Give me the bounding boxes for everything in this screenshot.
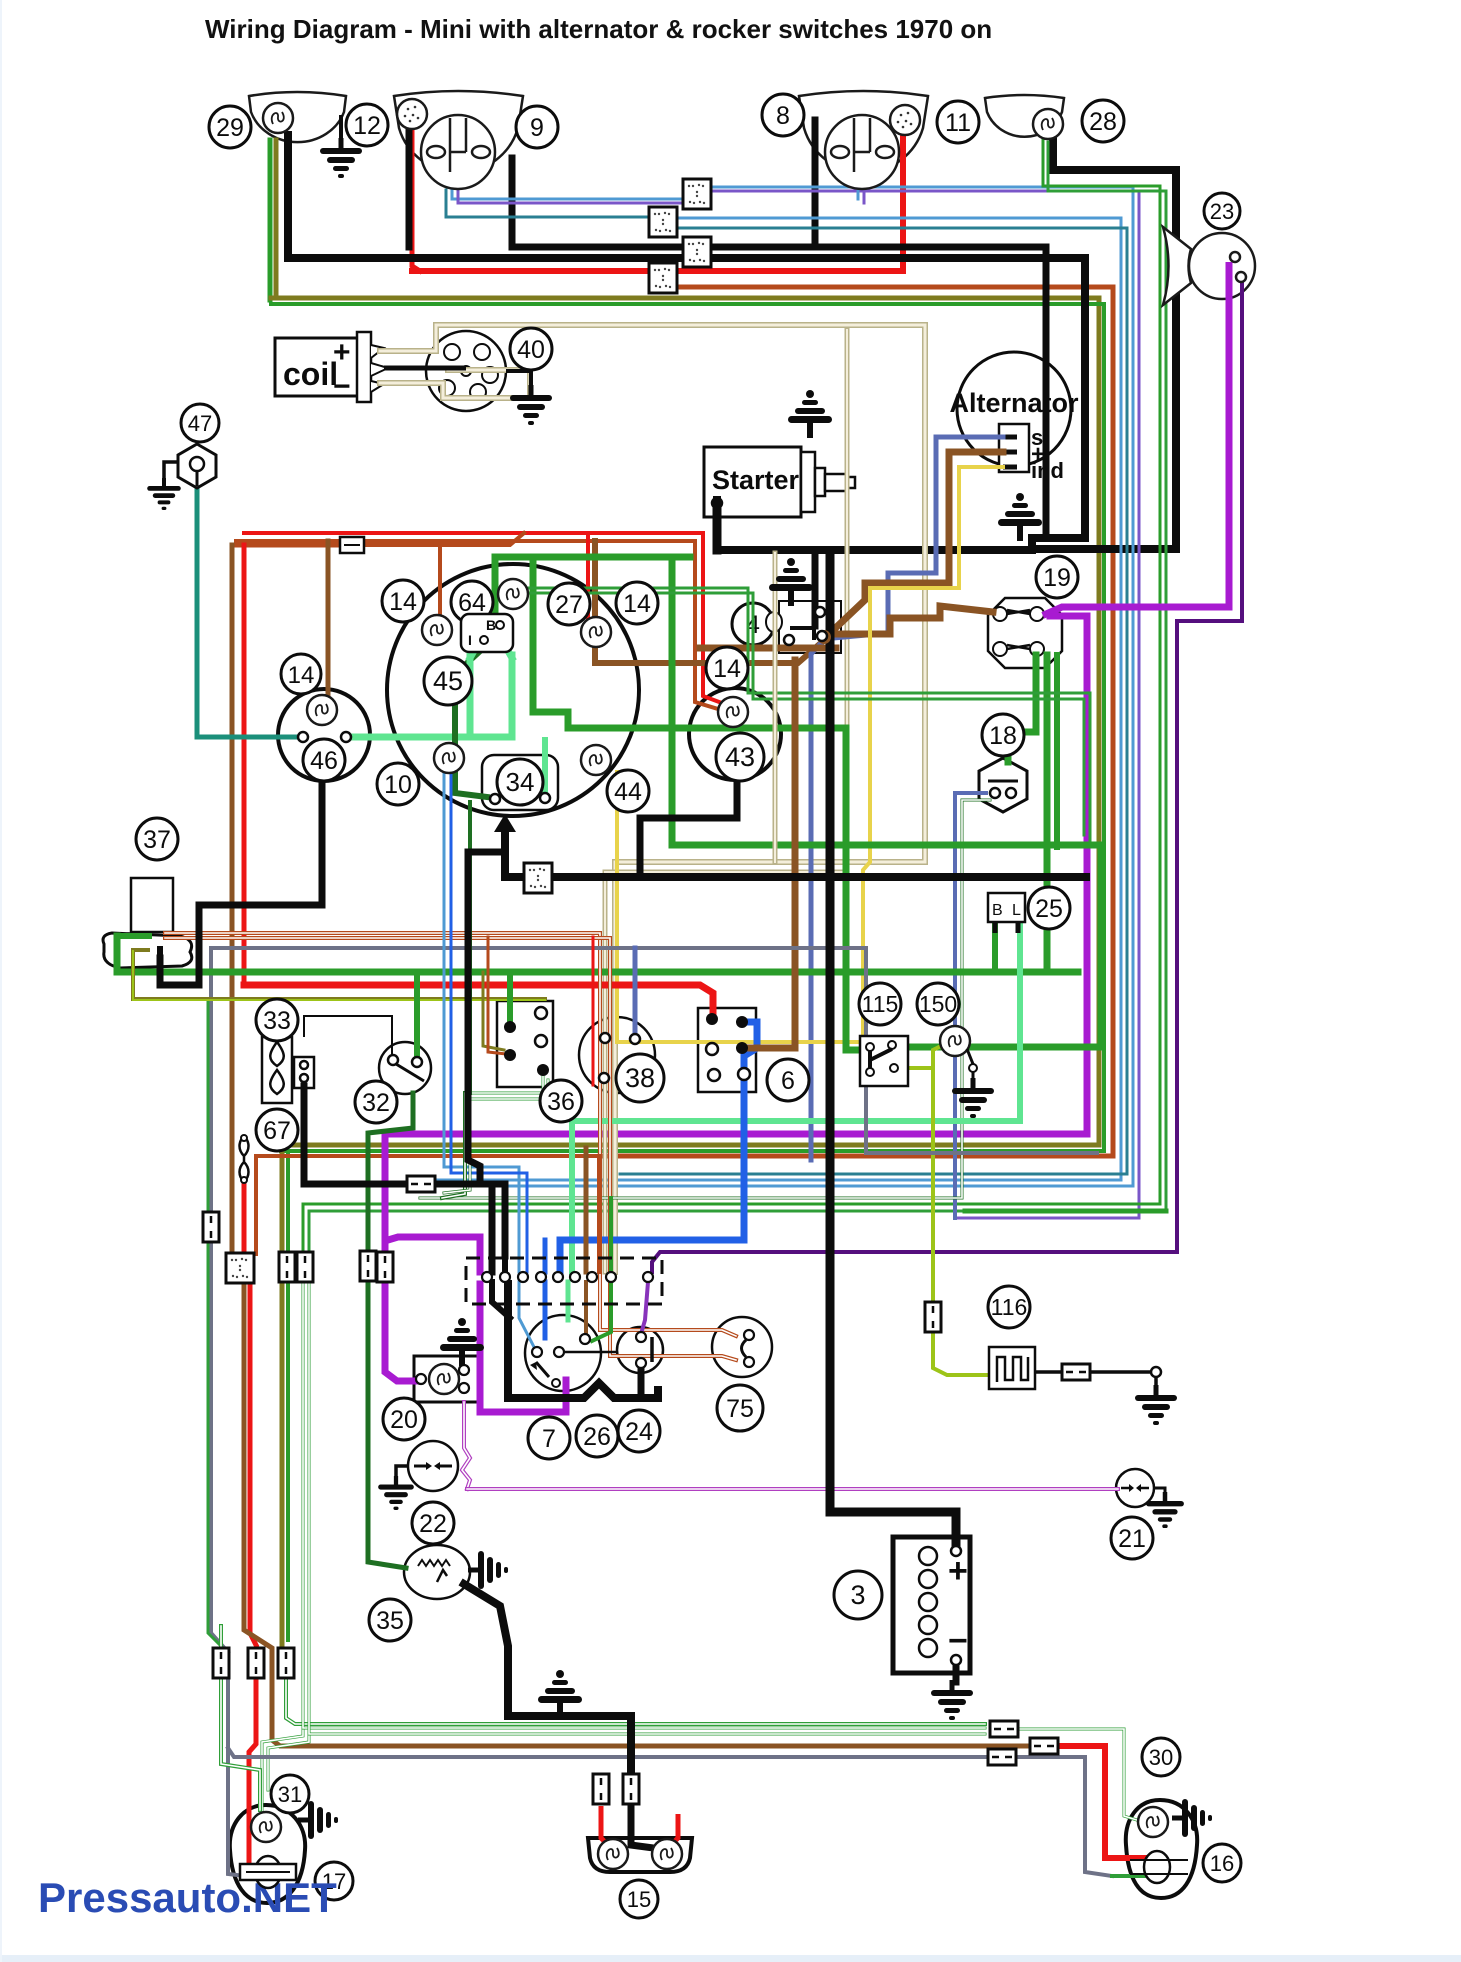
- wire black top band y258: [288, 135, 1085, 550]
- svg-text:33: 33: [263, 1007, 291, 1035]
- speedo inner box 34: [482, 755, 558, 810]
- svg-text:−: −: [333, 370, 351, 403]
- wire green drop into 32: [414, 972, 420, 1060]
- wire black fuse to ignition: [432, 1184, 505, 1256]
- label circle 8: [762, 94, 804, 136]
- label circle 150: [917, 983, 959, 1025]
- svg-text:30: 30: [1149, 1745, 1173, 1770]
- switch 36 terminals: [504, 1021, 516, 1033]
- lamp 28 shell: [985, 95, 1064, 137]
- svg-text:coil: coil: [283, 356, 338, 392]
- wire green-brown two-tone vertical olive half: [274, 140, 279, 298]
- wire gray rear after fuse: [1015, 1757, 1112, 1876]
- wire green below box: [592, 1282, 611, 1341]
- lamp 20 bulb and terminals: [416, 1374, 426, 1384]
- page edge strips: [0, 1955, 1461, 1962]
- svg-text:31: 31: [278, 1782, 302, 1807]
- wire green pair B below: [268, 1284, 309, 1790]
- svg-text:14: 14: [288, 662, 315, 689]
- svg-text:15: 15: [627, 1887, 651, 1912]
- label circle 14 right: [616, 582, 658, 624]
- label circle 26: [576, 1415, 618, 1457]
- terminals of 46: [298, 732, 351, 742]
- svg-text:23: 23: [1210, 199, 1234, 224]
- svg-text:Wiring Diagram - Mini with alt: Wiring Diagram - Mini with alternator & …: [205, 14, 992, 44]
- connectors top middle: [683, 179, 711, 209]
- switch 32: [379, 1042, 431, 1094]
- heater fan 33: [262, 1037, 314, 1103]
- wire red after fuse to lamp16: [1058, 1746, 1145, 1858]
- wire magenta band y1237: [388, 1237, 480, 1272]
- wire green from 18: [420, 800, 990, 1198]
- wire rust thin pair B: [165, 938, 736, 1360]
- svg-text:45: 45: [433, 666, 463, 696]
- bulb in 46: [307, 695, 337, 725]
- label circle 30: [1142, 1738, 1180, 1776]
- battery 3: [893, 1537, 970, 1673]
- wire black y877 band: [505, 830, 1086, 877]
- label circle 33: [256, 999, 298, 1041]
- svg-text:3: 3: [850, 1580, 865, 1610]
- label circle 10: [377, 763, 419, 805]
- label circle 37: [136, 818, 178, 860]
- wire magenta to lamp 20: [382, 1134, 389, 1253]
- number plate lamp 15 bulbs: [598, 1839, 628, 1869]
- wire black ignition M: [508, 1284, 658, 1398]
- black coil centre lead: [384, 366, 466, 371]
- wire black lamp8 earth down: [812, 120, 819, 247]
- wire rust band y541: [236, 541, 718, 709]
- wire lamp8 violet tap: [863, 190, 866, 203]
- svg-text:37: 37: [143, 826, 171, 854]
- label circle 17: [315, 1862, 353, 1900]
- contact 75: [712, 1317, 772, 1377]
- wire green thin pair from bulb B: [524, 593, 1084, 835]
- label circle 11: [937, 101, 979, 143]
- wiper motor 38: [579, 1017, 655, 1093]
- label circle 28: [1082, 100, 1124, 142]
- ground right of 30: [1172, 1799, 1212, 1837]
- label circle 45: [424, 657, 472, 705]
- gauge 43: [689, 688, 781, 780]
- alternator circle: [949, 352, 1079, 483]
- label circle 23: [1204, 193, 1240, 229]
- wire brown drop to box: [584, 1148, 589, 1272]
- wire slate from 18: [955, 793, 986, 1218]
- key switch 24 circle: [617, 1327, 663, 1373]
- wire black rear below fuse: [631, 1806, 676, 1851]
- label circle 64: [451, 581, 493, 623]
- label circle 6: [767, 1059, 809, 1101]
- wire black battery to ground: [953, 1662, 960, 1682]
- wire mint drop dashed box: [569, 1121, 575, 1272]
- wire green pair A from 36: [465, 1075, 543, 1093]
- wire chartreuse relay out: [893, 1043, 947, 1068]
- wire yellowgreen thin: [133, 951, 545, 1000]
- svg-text:14: 14: [713, 655, 741, 683]
- wire green lamp28 B: [309, 142, 1166, 1254]
- wire green pair B from 36: [470, 1080, 548, 1099]
- starter box: [704, 447, 855, 517]
- svg-text:32: 32: [362, 1089, 390, 1117]
- wire chartreuse down to 116: [931, 1068, 935, 1303]
- wire horn dark purple: [652, 277, 1242, 1272]
- wire thin purple to 21: [467, 1487, 1118, 1491]
- wire rust band left part: [256, 1156, 600, 1254]
- svg-text:Alternator: Alternator: [949, 388, 1079, 418]
- fuses bottom left: [203, 1212, 219, 1242]
- wire mint cluster loop apex: [470, 640, 512, 658]
- wire blue below box: [543, 1282, 548, 1338]
- wire green 19 down b: [1044, 655, 1051, 972]
- wire violet pair lamp9: [458, 190, 683, 203]
- svg-text:16: 16: [1210, 1851, 1234, 1876]
- svg-text:47: 47: [188, 411, 212, 436]
- wire mint 46 to cluster: [350, 734, 512, 741]
- parking bulb in headlamp 8: [890, 105, 920, 135]
- label circle 43: [716, 733, 764, 781]
- svg-text:38: 38: [625, 1063, 655, 1093]
- label circle 22: [412, 1502, 454, 1544]
- wire gray rear band: [228, 1748, 988, 1757]
- distributor 40: [426, 331, 506, 411]
- ground 12: [320, 115, 362, 178]
- svg-text:44: 44: [614, 778, 642, 806]
- wire green rear band B: [309, 1284, 985, 1734]
- dashed connector strip: [466, 1258, 662, 1304]
- label circle 14 above 43: [706, 647, 748, 689]
- wire magenta below fuse to 20: [385, 1280, 418, 1381]
- wire lblue pair cluster A: [444, 772, 519, 1272]
- inline connector teardrops on red: [240, 1135, 249, 1183]
- label circle 46: [303, 739, 345, 781]
- wire cream coil loop outer edge: [380, 325, 925, 1272]
- red V wires into 15: [601, 1806, 613, 1850]
- wire black y905 46 link: [160, 783, 322, 985]
- label circle 25: [1028, 887, 1070, 929]
- rear lamp right 16: [1126, 1800, 1197, 1898]
- voltage stabiliser 64 box: [461, 614, 513, 652]
- label circle 35: [369, 1599, 411, 1641]
- fuses bottom right: [990, 1721, 1018, 1737]
- wire cream mid vertical: [774, 553, 776, 862]
- key switch 24 contacts: [636, 1332, 646, 1342]
- wire brown tail down left: [280, 1145, 285, 1646]
- wire slate below switch 4: [811, 642, 822, 1160]
- ground mid bottom: [538, 1670, 582, 1718]
- label circle 116: [988, 1286, 1030, 1328]
- wiper motor 38 terminals: [600, 1033, 610, 1043]
- wire alternator yellow lead: [617, 467, 1003, 1042]
- label circle 29: [209, 106, 251, 148]
- wire teal pair from lamp9: [446, 190, 650, 217]
- svg-text:18: 18: [989, 722, 1017, 750]
- label circle 19: [1036, 556, 1078, 598]
- svg-text:B: B: [992, 902, 1003, 919]
- wire violet after conn1: [711, 191, 1139, 1218]
- wire cream coil loop inner edge: [380, 370, 530, 398]
- wire red to lamp31 bulb: [249, 1680, 256, 1862]
- ground right of 35: [468, 1551, 508, 1589]
- label circle 7: [528, 1417, 570, 1459]
- wire mint band y1121: [572, 922, 1020, 1121]
- ground above 20: [440, 1318, 484, 1366]
- svg-text:7: 7: [542, 1425, 556, 1453]
- contact 75 contacts: [744, 1330, 754, 1340]
- wire rust thin pair A: [165, 933, 736, 1336]
- wire black y877 left pair: [468, 830, 505, 1272]
- wire rust drop to box: [597, 1156, 601, 1272]
- label circle 75: [717, 1385, 763, 1431]
- wire alternator brown lead: [827, 452, 1003, 636]
- svg-text:L: L: [1012, 902, 1021, 919]
- wire brown left column down: [230, 545, 235, 1254]
- svg-text:67: 67: [263, 1117, 291, 1145]
- svg-text:27: 27: [555, 591, 583, 619]
- wire green rear band below fuse: [303, 1284, 985, 1728]
- svg-text:20: 20: [390, 1406, 418, 1434]
- label circle 38: [616, 1054, 664, 1102]
- wire mint below box: [566, 1282, 571, 1320]
- wire green-brown run top band olive: [271, 298, 1099, 1145]
- label circle 115: [859, 983, 901, 1025]
- wire horn magenta: [1046, 262, 1229, 614]
- wire green from 25 B leg: [992, 925, 998, 972]
- gauge 46: [278, 689, 370, 781]
- ground for 150: [952, 1049, 994, 1118]
- wire green-brown two-tone vertical green half: [268, 140, 273, 300]
- black arrow under cluster: [494, 814, 516, 832]
- wire green 19 down c: [1054, 655, 1060, 847]
- label circle 27: [548, 583, 590, 625]
- wire green drop to box: [609, 1198, 613, 1272]
- svg-text:36: 36: [547, 1088, 575, 1116]
- switch 4 terminals: [815, 607, 825, 617]
- wire black into switch 4: [812, 553, 819, 626]
- svg-text:B: B: [486, 617, 496, 633]
- wire green cluster drop: [492, 557, 499, 618]
- flasher 22: [408, 1441, 458, 1491]
- svg-text:25: 25: [1035, 895, 1063, 923]
- wire black top band y247: [512, 158, 1046, 537]
- ignition switch 7: [525, 1315, 601, 1391]
- wire 33 to 32: [304, 1016, 392, 1056]
- label circle 15: [620, 1880, 658, 1918]
- wire mint cluster loop leg2: [509, 655, 516, 737]
- wire horn magenta stub inside horn: [1226, 262, 1233, 335]
- switch 32 contacts: [388, 1055, 398, 1065]
- wire green y848 loop: [672, 557, 1101, 1047]
- wire green cluster inner 1: [455, 628, 505, 797]
- wire blue drop to box: [543, 1240, 548, 1272]
- label circle 24: [618, 1410, 660, 1452]
- wire green stub above fuse1: [219, 1626, 223, 1648]
- wire lblue below box: [519, 1282, 534, 1347]
- instrument cluster 45 circle: [387, 564, 639, 816]
- wire green stub into lamp16: [1112, 1874, 1145, 1878]
- label circle 67: [256, 1109, 298, 1151]
- wire lamp8 blue tap: [857, 190, 860, 199]
- fuse on black 33 run: [407, 1176, 435, 1192]
- wire slate gray to lamp 17: [228, 1652, 254, 1877]
- rocker switch 19: [988, 598, 1062, 668]
- fuse on chartreuse: [925, 1302, 941, 1332]
- label circle 20: [383, 1398, 425, 1440]
- wire black 24 drop: [638, 1362, 645, 1398]
- label circle 21: [1111, 1517, 1153, 1559]
- label circle 31: [271, 1775, 309, 1813]
- wire horn dark purple stub inside horn: [1240, 277, 1244, 335]
- lamp 29 shell: [249, 92, 346, 142]
- svg-text:116: 116: [991, 1294, 1028, 1320]
- wire red drop past 38: [592, 937, 595, 1085]
- wire red lamp9 parking down: [412, 128, 420, 271]
- svg-text:10: 10: [384, 771, 412, 799]
- label circle 32: [355, 1081, 397, 1123]
- label circle 14 above 46: [281, 654, 321, 694]
- wire red band y989: [244, 985, 713, 1017]
- speedo 34 terminals: [490, 794, 500, 804]
- svg-text:26: 26: [583, 1423, 611, 1451]
- horn 23: [1163, 227, 1255, 305]
- lamp 21: [1116, 1469, 1184, 1528]
- svg-text:14: 14: [623, 590, 651, 618]
- wire hollow green pair 33 down: [442, 1093, 465, 1198]
- svg-text:9: 9: [530, 114, 544, 142]
- ground left of 22: [378, 1466, 414, 1510]
- wire brown drop to 46 bulb: [326, 541, 331, 706]
- label circle 34: [497, 759, 543, 805]
- bulb 10: [434, 743, 464, 773]
- bolt 47: [181, 404, 219, 442]
- label circle 44: [607, 770, 649, 812]
- wire green band y962: [117, 936, 1078, 972]
- parking bulb in headlamp 9: [397, 99, 427, 129]
- svg-text:14: 14: [389, 588, 417, 616]
- wire black 43 link: [640, 776, 737, 877]
- wire rust band y287: [600, 287, 1113, 1156]
- wire brown to switch 19: [826, 606, 993, 634]
- wire green pair A below fuse: [262, 1284, 303, 1812]
- switch box 36: [497, 1001, 553, 1087]
- wire red band y533: [244, 533, 722, 703]
- wire mint 34 stub: [542, 740, 548, 796]
- svg-text:29: 29: [216, 114, 244, 142]
- svg-text:19: 19: [1043, 564, 1071, 592]
- wire dark green below fuse to 35: [368, 1280, 406, 1568]
- wire green thin pair from bulb A: [520, 588, 1090, 840]
- ground right of 31: [298, 1801, 338, 1839]
- wire green band y556: [495, 554, 690, 561]
- wire blue thick from 6: [560, 1022, 757, 1272]
- wire rust drop into 36: [488, 937, 506, 1054]
- wire green half of slate column: [208, 1000, 225, 1650]
- ground below 40: [506, 371, 552, 425]
- wire green rear band A: [286, 1680, 985, 1724]
- wire black 33 to ignition: [304, 1086, 405, 1184]
- wire cream pair 2: [605, 330, 847, 1272]
- wire brown below connector down: [244, 1286, 1030, 1746]
- label circle 9: [516, 106, 558, 148]
- wire gray band y948: [211, 948, 1097, 1153]
- label circle 12: [346, 104, 388, 146]
- wire cream pair 2 edge: [605, 330, 847, 1272]
- bulb 150: [940, 1026, 970, 1056]
- svg-text:46: 46: [310, 747, 338, 775]
- svg-text:34: 34: [506, 767, 535, 797]
- svg-text:75: 75: [726, 1395, 754, 1423]
- wire black below box to switch2: [502, 1258, 508, 1272]
- svg-text:115: 115: [862, 991, 899, 1017]
- headlamp 9 main bulb: [421, 115, 495, 189]
- svg-text:150: 150: [919, 991, 957, 1017]
- sensor 18 hexagon: [979, 758, 1027, 812]
- wire cream coil loop outer: [380, 325, 925, 1272]
- wire magenta U to ignition: [480, 1284, 566, 1412]
- fuse on rust fork: [340, 537, 364, 553]
- wire green lamp28 A: [303, 138, 1160, 1252]
- wire brown drop to y663 then right: [595, 541, 822, 663]
- wire thin purple 20 to 22: [462, 1402, 470, 1489]
- wire red below connector to rear lamp 31: [250, 1286, 256, 1645]
- ground for 47: [147, 462, 181, 510]
- rear lamp 17 bulbs: [251, 1812, 281, 1842]
- svg-text:11: 11: [945, 109, 971, 137]
- wire slate gray below fuse: [211, 1244, 228, 1652]
- wire dark green 32 to 35: [368, 1093, 413, 1250]
- wire magenta 19 down: [385, 616, 1087, 1134]
- wire mint cluster loop: [467, 655, 474, 737]
- wire lblue pair cluster B: [451, 772, 527, 1272]
- wire red left column down: [242, 545, 247, 985]
- wire green drop into 36: [507, 972, 513, 1025]
- wire rust fork with fuse: [236, 543, 340, 548]
- ignition switch 7 contacts: [532, 1347, 542, 1357]
- ground right of alternator: [998, 493, 1042, 541]
- horn 23 terminals: [1230, 252, 1246, 282]
- bulb 27: [581, 617, 611, 647]
- ground above starter: [788, 390, 832, 438]
- wire green 19 to 18: [1008, 655, 1036, 762]
- wire green tail down left: [286, 1151, 290, 1640]
- label circle 36: [540, 1080, 582, 1122]
- switch box 6: [698, 1008, 756, 1092]
- svg-text:12: 12: [353, 112, 381, 140]
- headlamp 9 shell: [394, 91, 523, 173]
- wire teal pair out A: [420, 218, 1121, 1180]
- flasher unit 116: [989, 1347, 1035, 1389]
- bulb in lamp 29: [263, 103, 293, 133]
- wire chartreuse below fuse: [933, 1332, 991, 1375]
- switch 4: [732, 603, 774, 645]
- bulb 14 left: [422, 615, 452, 645]
- wire green fuse1 to bulb31: [221, 1678, 260, 1810]
- wire purple below box: [641, 1282, 648, 1334]
- wire brown switch4 jog: [700, 645, 836, 652]
- svg-text:6: 6: [781, 1067, 795, 1095]
- wire dgreen stub 34 down: [468, 802, 472, 1093]
- wire hollow green pair 33 down B: [444, 1099, 470, 1193]
- label circle 14 left: [382, 580, 424, 622]
- battery 3 terminals: [951, 1546, 961, 1556]
- label circle 16: [1203, 1844, 1241, 1882]
- fuel pump 37: [103, 878, 192, 968]
- label circle 3: [834, 1571, 882, 1619]
- wire cream mid vertical edge: [773, 553, 778, 862]
- wire rust drop to bulb 14: [438, 545, 442, 620]
- wire black starter cable: [713, 505, 722, 550]
- wire slate drop into 38: [633, 948, 638, 1034]
